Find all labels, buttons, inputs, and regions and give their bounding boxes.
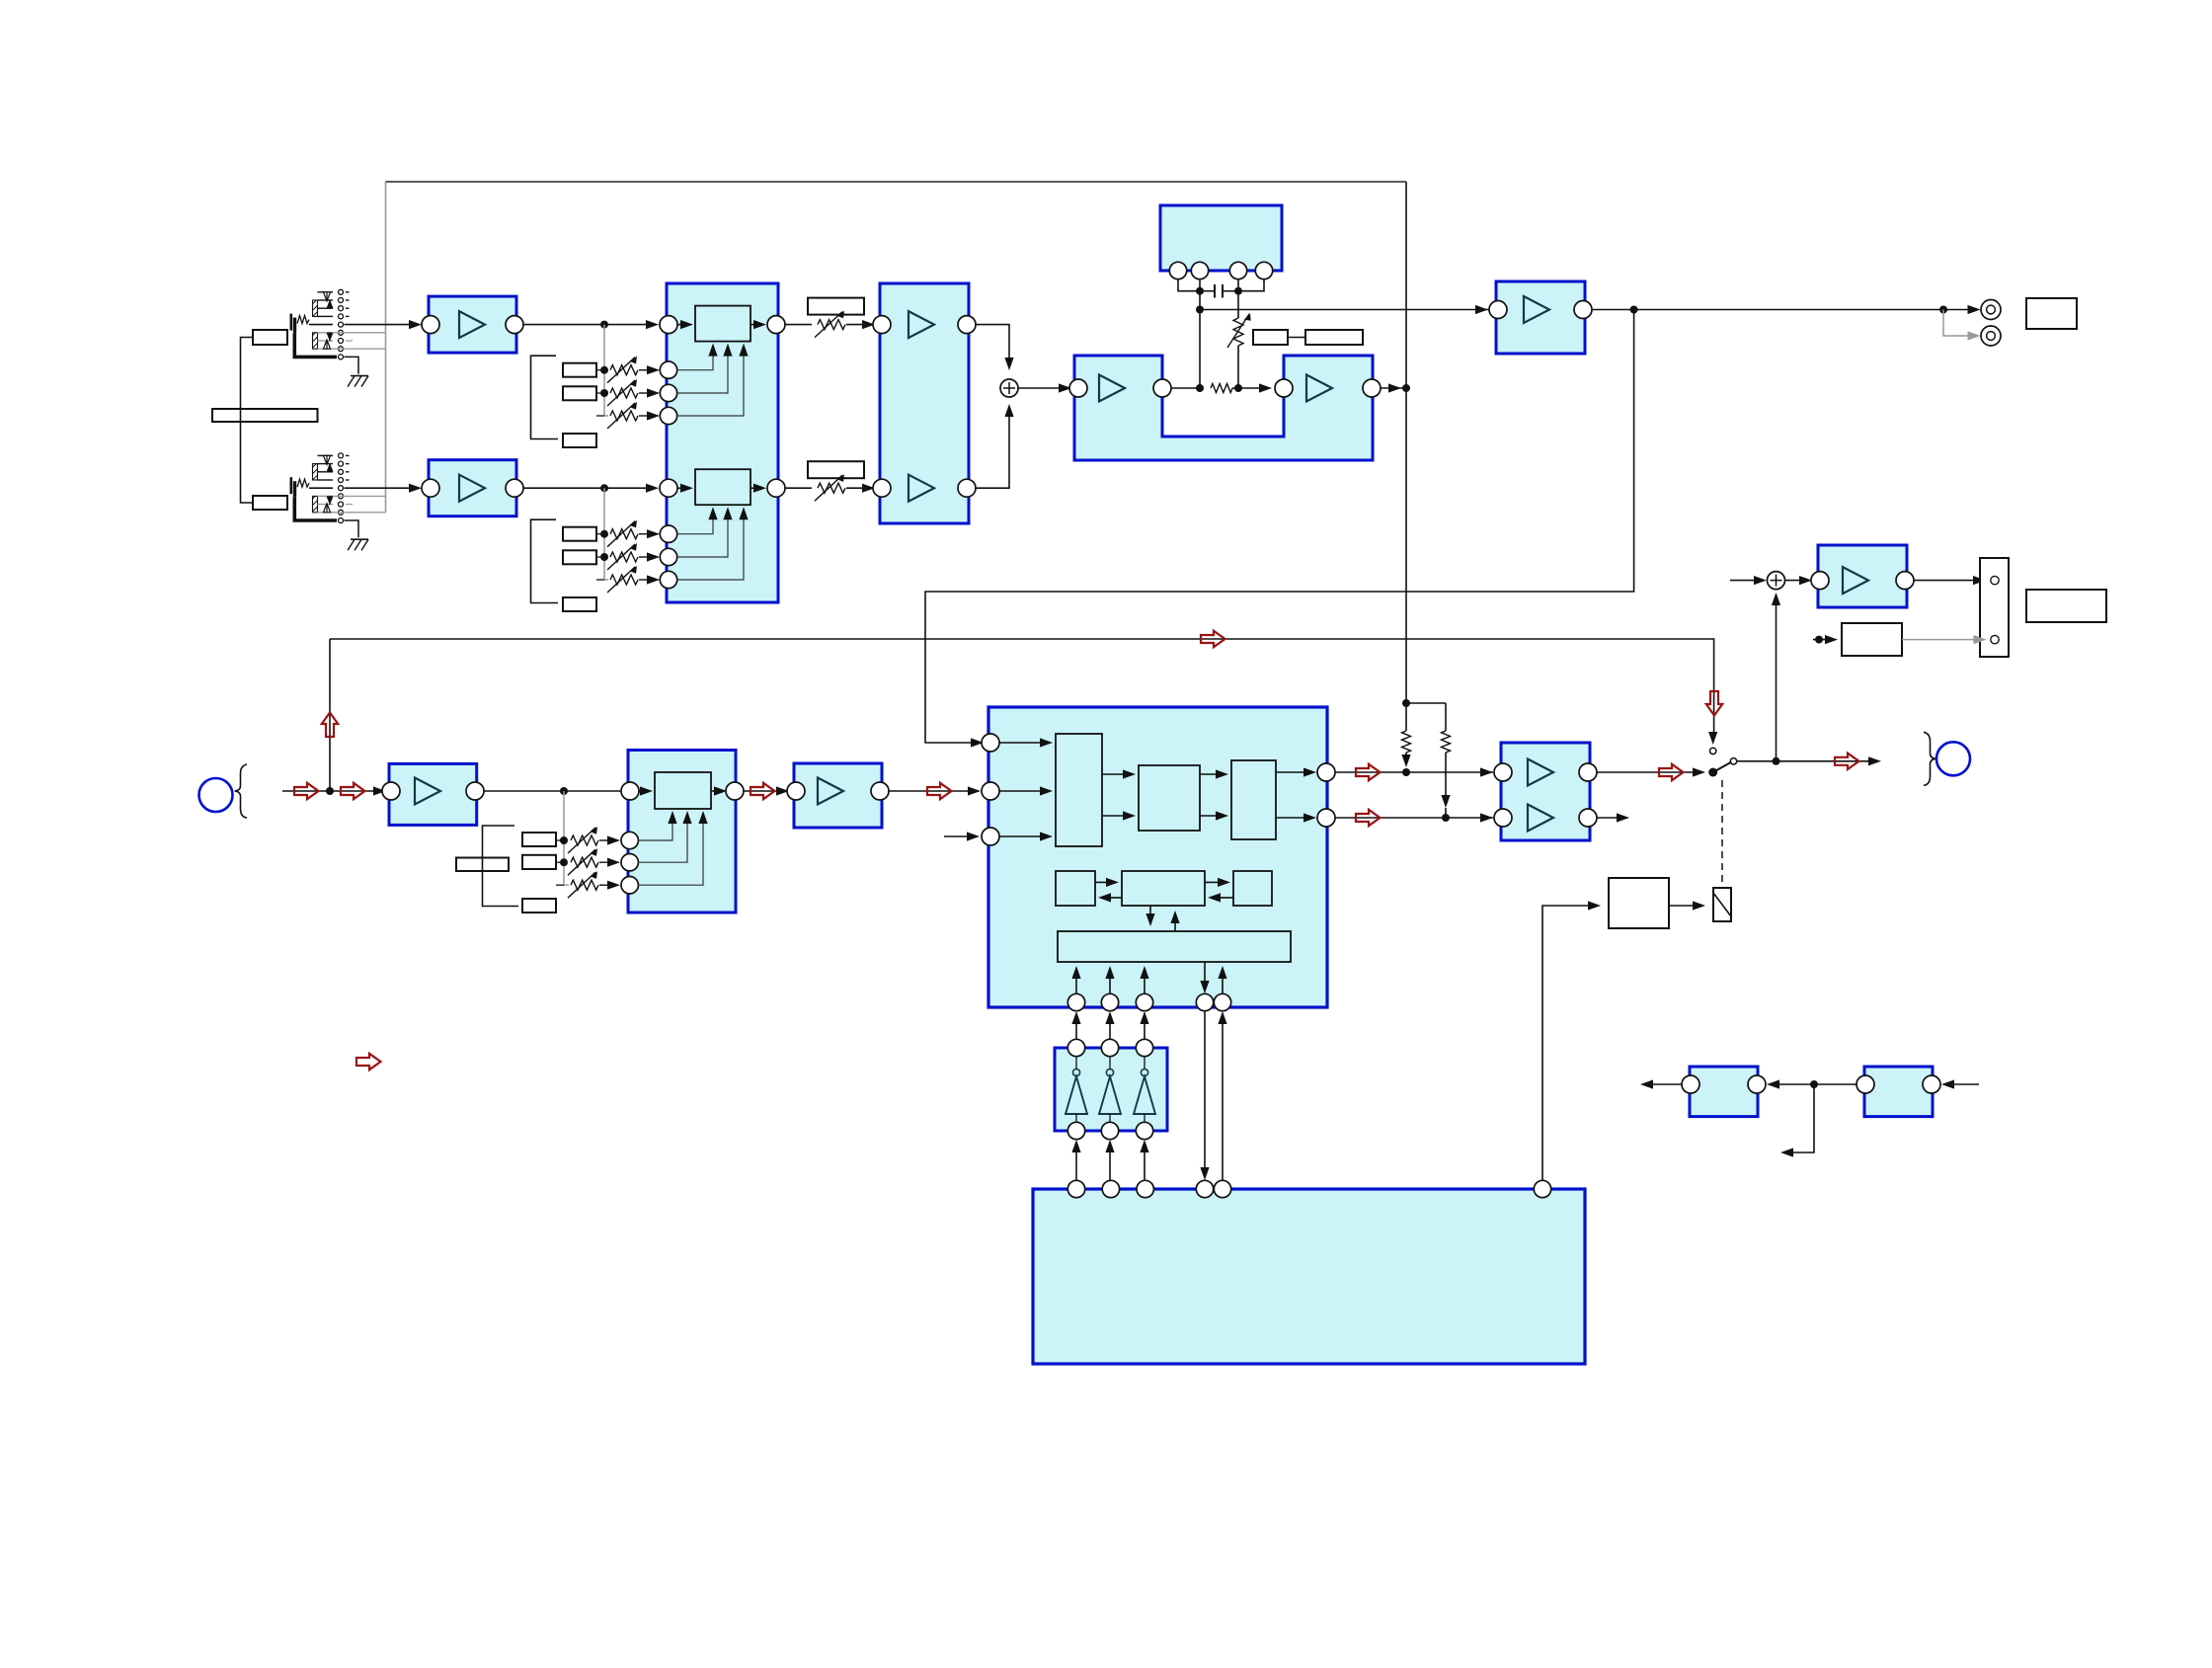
filter block IC (top) — [1160, 205, 1282, 271]
mute resistor R-b — [1445, 703, 1447, 731]
level trim resistor + label (CH-1) — [808, 298, 864, 315]
wire bus input 1 (from level shifter) — [1075, 969, 1077, 1002]
pin DSP out1 — [1317, 763, 1335, 781]
wire mic tap up to speaker feed — [329, 639, 331, 791]
wire filter pins to cap node (left) — [1178, 279, 1200, 291]
wire reg-L output — [1643, 1083, 1682, 1085]
wire monitor amp2 out to feedback tap — [1381, 387, 1406, 389]
pin CPU 5 — [1214, 1180, 1230, 1197]
pin line amp out (CH-1) — [958, 316, 976, 334]
mic VCA block IC — [628, 751, 736, 913]
wire controller to RAM-R — [1205, 881, 1227, 883]
pin DSP ser-in — [1214, 993, 1230, 1010]
mic line amp block IC — [794, 763, 882, 828]
wire speaker feed (y=647) — [330, 639, 1714, 740]
pin DSP in3 — [982, 828, 999, 845]
label box (J2 tip net) — [253, 496, 287, 510]
wire DSP out1 row — [1335, 771, 1493, 773]
RCA jack LINE OUT L — [1981, 300, 2001, 320]
amp symbol monitor-1 — [1099, 375, 1125, 402]
pin shifter top 3 — [1136, 1039, 1152, 1056]
wire post to DSP out2 — [1276, 817, 1313, 819]
pin line amp in (CH-2) — [873, 479, 891, 497]
wire bus to controller (up) — [1174, 913, 1176, 931]
pin reg-R in — [1923, 1075, 1940, 1093]
pin mic amp out — [466, 782, 484, 800]
mic level control resistor group — [563, 791, 565, 885]
wire headphone tap to summing2 — [1776, 596, 1777, 761]
wire filter pins to cap node (right) — [1238, 279, 1264, 291]
pin DSP in2 — [982, 782, 999, 800]
level shifter block IC (inverters) — [1055, 1048, 1167, 1131]
pin hp amp out1 — [1579, 763, 1597, 781]
wire jack tip to head amp — [345, 487, 420, 489]
pin DSP ctl1 — [1067, 993, 1084, 1010]
wire driver to relay — [1669, 905, 1702, 907]
wire CPU to shifter in 1 — [1075, 1143, 1077, 1180]
wire inter-stage with feedback resistor — [1171, 387, 1202, 389]
pin spk amp out — [1896, 572, 1914, 590]
wire processing to post (row2) — [1200, 815, 1225, 817]
wire monitor feedback right drop x=1424 — [1405, 182, 1407, 703]
wire reg tap down-left — [1783, 1084, 1814, 1152]
wire switch to headphone — [1737, 760, 1878, 762]
capacitor C (between filter pins) — [1200, 290, 1215, 292]
phone jack J2 (CH-2 input) with switch contacts — [290, 477, 293, 494]
pin shifter top 2 — [1101, 1039, 1118, 1056]
pin rec amp out — [1574, 301, 1592, 319]
pin reg-L in — [1748, 1075, 1766, 1093]
pin VCA in (CH-1) — [660, 316, 677, 334]
pin mic line amp out — [871, 782, 889, 800]
wire (gray) monitor feedback vertical to jack contacts — [385, 182, 387, 513]
pin mic amp in — [382, 782, 400, 800]
DSP controller box — [1122, 871, 1205, 906]
mute resistor R-a — [1405, 703, 1407, 731]
open arrow (power flow marker) — [356, 1054, 381, 1070]
pin DSP ctl2 — [1101, 993, 1118, 1010]
wire mic line amp to DSP — [889, 790, 978, 792]
pin line amp in (CH-1) — [873, 316, 891, 334]
pin DSP ctl3 — [1136, 993, 1152, 1010]
wire bus input 3 (from level shifter) — [1144, 969, 1145, 1002]
wire DSP in3 to selector — [999, 835, 1050, 837]
wire selector to processing (row1) — [1102, 773, 1133, 775]
wire CH-2 head amp out to VCA in — [523, 487, 656, 489]
VCA block IC (CH-1/CH-2 recording volume) — [667, 283, 778, 602]
DSP RAM box left — [1056, 871, 1095, 906]
pin monitor amp1 in — [1069, 379, 1087, 397]
amp symbol rec — [1524, 296, 1549, 323]
wire mic VCA out to mic line amp — [744, 790, 786, 792]
pin reg-L out — [1682, 1075, 1699, 1093]
headphone amp block IC (dual) — [1501, 743, 1590, 840]
pin hp amp in2 — [1494, 809, 1512, 827]
line amp block IC (CH-1/CH-2) — [880, 283, 969, 523]
wire rec-out tap to DSP input 1 — [925, 310, 1634, 744]
wire CPU to DSP (serial) — [1222, 1014, 1224, 1180]
pin monitor amp1 out — [1153, 379, 1171, 397]
wire controller to bus (down) — [1149, 906, 1151, 923]
label box pair (resistor net) — [1253, 330, 1288, 345]
system control CPU block IC — [1033, 1189, 1585, 1364]
inverter gate 3 — [1134, 1076, 1155, 1114]
wire shifter out 1 to DSP — [1075, 1014, 1077, 1039]
headphone brace — [1924, 732, 1935, 785]
pin mic line amp in — [787, 782, 805, 800]
wire mic to mic amp — [282, 790, 383, 792]
amp symbol hp1 — [1528, 759, 1553, 786]
wire CH-2 out to summing node — [976, 407, 1009, 488]
DSP input selector box — [1056, 734, 1102, 846]
wire feedback to mute resistors — [1406, 702, 1446, 704]
wire selector to processing (row2) — [1102, 815, 1133, 817]
DSP post box — [1231, 760, 1276, 839]
pin monitor amp2 in — [1275, 379, 1293, 397]
wire bus to CPU (serial out) — [1204, 962, 1206, 991]
inverter gate 1 — [1066, 1076, 1087, 1114]
headphone symbol — [1936, 742, 1970, 775]
pin DSP in1 — [982, 734, 999, 752]
pin rec amp in — [1489, 301, 1507, 319]
DSP control register bus box — [1058, 931, 1291, 962]
amp symbol spk — [1843, 567, 1868, 594]
label box speaker — [2026, 590, 2106, 622]
label box (J1 tip net) — [253, 330, 287, 345]
wire CPU to shifter in 2 — [1109, 1143, 1111, 1180]
wire DSP to CPU (serial) — [1204, 1011, 1206, 1177]
relay control dashed wire — [1721, 780, 1723, 886]
wire reg-R to reg-L — [1770, 1083, 1856, 1085]
wire hp out2 stub — [1597, 817, 1623, 819]
regulator block L — [1690, 1067, 1758, 1117]
pin mic VCA in — [621, 782, 639, 800]
wire (gray) to LINE OUT R — [1943, 310, 1975, 337]
pin shifter bottom 1 — [1067, 1122, 1084, 1139]
pin filter block p4 — [1255, 262, 1272, 278]
head amp block IC (CH-1) — [429, 296, 516, 353]
switch NC contact — [1710, 748, 1716, 754]
monitor amp block IC (U-shaped) — [1074, 356, 1373, 460]
wire into BTL box — [1813, 639, 1835, 641]
variable resistor leg (x=1254) — [1237, 291, 1239, 318]
pin CPU 4 — [1196, 1180, 1213, 1197]
wire hp out1 to switch — [1597, 771, 1701, 773]
VCA cell (CH-2) — [695, 469, 750, 505]
speaker amp block IC — [1818, 545, 1907, 607]
pin hp amp in1 — [1494, 763, 1512, 781]
wire bracket joining jack label boxes — [241, 338, 254, 504]
phone jack J1 (CH-1 input) with switch contacts — [290, 314, 293, 331]
wire DSP in1 to selector — [999, 742, 1050, 744]
gain control resistor group (CH-2) — [603, 488, 605, 580]
wire power input stub — [1944, 1083, 1979, 1085]
switch lever — [1713, 762, 1732, 773]
label box LINE OUT — [2026, 298, 2077, 329]
summing junction (+) — [1000, 379, 1018, 397]
wire summing node to monitor amp — [1018, 387, 1068, 389]
connector pin 2 — [1991, 635, 1999, 643]
pin shifter top 1 — [1067, 1039, 1084, 1056]
record out amp block IC — [1496, 281, 1585, 354]
wire DSP out2 row — [1335, 817, 1493, 819]
wire cap node to output bus / mid row (x=1215) — [1199, 291, 1201, 388]
pin spk amp in — [1811, 572, 1829, 590]
mic amp block IC — [389, 763, 477, 825]
wire spk amp to connector — [1914, 580, 1983, 582]
wire record out bus (y=313.5) — [1200, 309, 1977, 311]
connector pin 1 — [1991, 576, 1999, 584]
pin line amp out (CH-2) — [958, 479, 976, 497]
pin shifter bottom 2 — [1101, 1122, 1118, 1139]
head amp block IC (CH-2) — [429, 460, 516, 516]
pin reg-R out — [1856, 1075, 1874, 1093]
wire DSP in2 to selector — [999, 790, 1050, 792]
wire shifter out 3 to DSP — [1144, 1014, 1145, 1039]
pin CPU 2 — [1102, 1180, 1119, 1197]
pin monitor amp2 out — [1363, 379, 1381, 397]
RCA jack LINE OUT R — [1981, 326, 2001, 346]
pin DSP out2 — [1317, 809, 1335, 827]
pin DSP ser-out — [1196, 993, 1213, 1010]
pin filter block p3 — [1229, 262, 1246, 278]
wire aux stub to DSP input 3 — [944, 835, 977, 837]
pin VCA out (CH-2) — [767, 479, 785, 497]
pin filter block p2 — [1191, 262, 1208, 278]
level trim resistor + label (CH-2) — [808, 461, 864, 478]
pin CPU 1 — [1067, 1180, 1084, 1197]
DSP block IC (echo/effect) — [988, 707, 1327, 1007]
switch NO contact — [1730, 758, 1736, 764]
wire post to DSP out1 — [1276, 771, 1313, 773]
microphone brace — [235, 764, 247, 818]
amp symbol monitor-2 — [1306, 375, 1332, 402]
wire jack tip to head amp — [345, 324, 420, 326]
wire mic amp out to mic VCA — [484, 790, 644, 792]
pin VCA out (CH-1) — [767, 316, 785, 334]
pin shifter bottom 3 — [1136, 1122, 1152, 1139]
wire CPU to shifter in 3 — [1144, 1143, 1145, 1180]
relay driver box — [1609, 878, 1669, 928]
pin mic VCA out — [726, 782, 744, 800]
wire CPU to relay driver — [1542, 906, 1598, 1180]
amp symbol hp2 — [1528, 805, 1553, 832]
wire bus input 2 (from level shifter) — [1109, 969, 1111, 1002]
pin CPU relay-drive — [1534, 1180, 1550, 1197]
wire monitor feedback top run (y=184) — [386, 181, 1407, 183]
wire CH-1 head amp out to VCA in — [523, 324, 656, 326]
switch pole — [1708, 768, 1717, 777]
mic VCA cell — [655, 772, 711, 809]
battery/BTL box — [1842, 623, 1902, 656]
wire summing2 to speaker amp — [1785, 580, 1810, 582]
relay element — [1713, 888, 1731, 921]
pin filter block p1 — [1169, 262, 1186, 278]
pin CPU 3 — [1137, 1180, 1153, 1197]
pin VCA in (CH-2) — [660, 479, 677, 497]
wire shifter out 2 to DSP — [1109, 1014, 1111, 1039]
wire (gray) BTL box to connector pin2 — [1902, 639, 1983, 641]
gain control resistor group (CH-1) — [603, 325, 605, 416]
microphone symbol — [199, 778, 233, 812]
wire CH-1 out to summing node — [976, 325, 1009, 367]
amp symbol (CH-2) — [908, 475, 934, 502]
amp symbol (CH-1) — [908, 311, 934, 338]
inverter gate 2 — [1099, 1076, 1121, 1114]
pin hp amp out2 — [1579, 809, 1597, 827]
amp symbol mic line — [818, 778, 843, 805]
wire input to summing2 — [1730, 580, 1764, 582]
amp symbol mic — [415, 778, 440, 805]
summing junction 2 (+) — [1768, 572, 1785, 590]
speaker connector box — [1980, 558, 2009, 657]
wire CPU to bus (serial in) — [1222, 969, 1224, 993]
DSP RAM box right — [1233, 871, 1272, 906]
wire RAM-L to controller — [1095, 881, 1116, 883]
VCA cell (CH-1) — [695, 306, 750, 342]
DSP processing box — [1139, 765, 1200, 831]
label box (jacks common, wide) — [212, 409, 318, 422]
regulator block R — [1864, 1067, 1933, 1117]
wire processing to post (row1) — [1200, 773, 1225, 775]
